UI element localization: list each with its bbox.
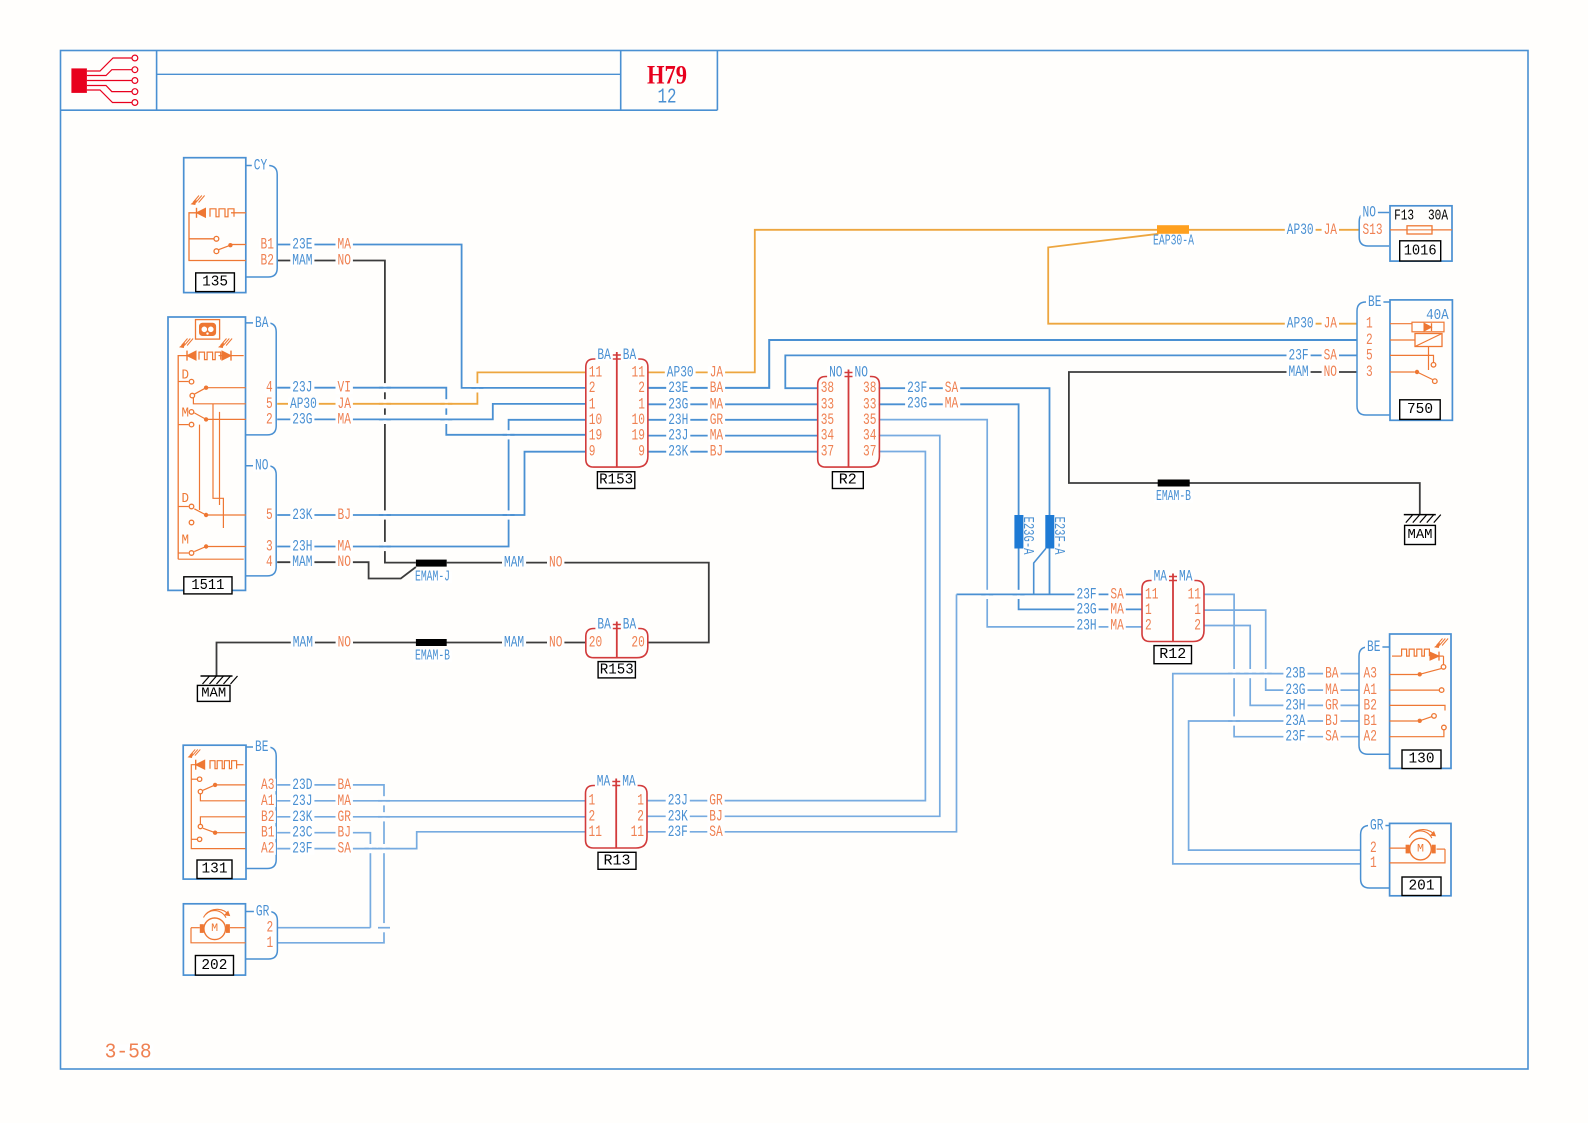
svg-text:EMAM-B: EMAM-B bbox=[1156, 489, 1191, 505]
svg-text:BE: BE bbox=[1368, 293, 1381, 311]
svg-text:MA: MA bbox=[338, 410, 352, 428]
svg-text:A2: A2 bbox=[261, 840, 274, 858]
svg-text:BJ: BJ bbox=[338, 506, 351, 524]
svg-text:F13: F13 bbox=[1394, 208, 1414, 224]
svg-text:20: 20 bbox=[589, 634, 602, 652]
svg-text:131: 131 bbox=[202, 861, 228, 878]
svg-text:EMAM-J: EMAM-J bbox=[415, 570, 450, 586]
svg-text:23B: 23B bbox=[1285, 665, 1305, 683]
svg-text:30A: 30A bbox=[1428, 208, 1448, 224]
svg-text:BE: BE bbox=[1367, 638, 1380, 656]
svg-text:12: 12 bbox=[658, 87, 677, 110]
svg-text:MA: MA bbox=[597, 773, 611, 791]
svg-text:MAM: MAM bbox=[293, 634, 313, 652]
svg-text:2: 2 bbox=[1145, 617, 1152, 635]
svg-text:NO: NO bbox=[1324, 363, 1337, 381]
svg-text:11: 11 bbox=[631, 823, 644, 841]
svg-text:BE: BE bbox=[255, 738, 268, 756]
svg-text:3: 3 bbox=[1366, 363, 1373, 381]
svg-text:23G: 23G bbox=[292, 410, 312, 428]
svg-text:SA: SA bbox=[709, 823, 723, 841]
svg-text:135: 135 bbox=[202, 274, 228, 291]
svg-text:23F: 23F bbox=[1289, 346, 1309, 364]
svg-text:E23G-A: E23G-A bbox=[1019, 517, 1035, 555]
svg-text:NO: NO bbox=[549, 634, 562, 652]
svg-text:BA: BA bbox=[623, 346, 637, 364]
svg-text:1016: 1016 bbox=[1404, 242, 1437, 259]
svg-text:D: D bbox=[182, 491, 190, 507]
svg-text:AP30: AP30 bbox=[1287, 315, 1314, 333]
svg-text:MA: MA bbox=[945, 395, 959, 413]
svg-text:R153: R153 bbox=[599, 472, 633, 489]
svg-text:H79: H79 bbox=[647, 61, 687, 90]
svg-text:SA: SA bbox=[1325, 728, 1339, 746]
svg-text:NO: NO bbox=[338, 634, 351, 652]
svg-text:NO: NO bbox=[338, 252, 351, 270]
svg-text:4: 4 bbox=[266, 553, 273, 571]
svg-text:R153: R153 bbox=[600, 661, 634, 678]
svg-text:MAM: MAM bbox=[201, 685, 226, 701]
svg-text:37: 37 bbox=[863, 443, 876, 461]
svg-text:R13: R13 bbox=[604, 852, 631, 869]
svg-text:23H: 23H bbox=[1077, 617, 1097, 635]
svg-text:NO: NO bbox=[338, 553, 351, 571]
svg-text:MAM: MAM bbox=[1408, 527, 1433, 543]
svg-text:AP30: AP30 bbox=[1287, 221, 1314, 239]
svg-text:M: M bbox=[182, 406, 190, 422]
svg-text:MAM: MAM bbox=[292, 553, 312, 571]
svg-text:37: 37 bbox=[821, 443, 834, 461]
svg-text:BA: BA bbox=[623, 616, 637, 634]
svg-text:20: 20 bbox=[631, 634, 644, 652]
svg-text:750: 750 bbox=[1407, 401, 1433, 418]
svg-text:40A: 40A bbox=[1426, 308, 1449, 324]
svg-text:NO: NO bbox=[255, 457, 268, 475]
svg-text:3-58: 3-58 bbox=[105, 1042, 152, 1065]
svg-text:JA: JA bbox=[1324, 221, 1338, 239]
svg-text:MAM: MAM bbox=[1289, 363, 1309, 381]
svg-text:5: 5 bbox=[1366, 346, 1373, 364]
svg-text:201: 201 bbox=[1409, 878, 1435, 895]
svg-text:BA: BA bbox=[597, 346, 611, 364]
svg-text:2: 2 bbox=[266, 410, 273, 428]
svg-text:23F: 23F bbox=[292, 840, 312, 858]
svg-text:B2: B2 bbox=[261, 252, 274, 270]
svg-text:BA: BA bbox=[710, 379, 724, 397]
svg-text:M: M bbox=[182, 532, 190, 548]
svg-text:MA: MA bbox=[1154, 568, 1168, 586]
svg-text:M: M bbox=[1417, 843, 1424, 855]
svg-text:1: 1 bbox=[1370, 854, 1377, 872]
svg-text:GR: GR bbox=[1370, 817, 1383, 835]
svg-text:23K: 23K bbox=[668, 443, 689, 461]
svg-text:1: 1 bbox=[267, 934, 274, 952]
svg-text:A2: A2 bbox=[1364, 728, 1377, 746]
svg-text:1: 1 bbox=[1366, 315, 1373, 333]
svg-text:NO: NO bbox=[1363, 204, 1376, 222]
svg-text:BJ: BJ bbox=[710, 443, 723, 461]
svg-text:EMAM-B: EMAM-B bbox=[415, 649, 450, 665]
svg-text:23F: 23F bbox=[1285, 728, 1305, 746]
svg-text:BA: BA bbox=[255, 314, 269, 332]
svg-text:SA: SA bbox=[338, 840, 352, 858]
svg-text:11: 11 bbox=[589, 823, 602, 841]
svg-text:MAM: MAM bbox=[292, 252, 312, 270]
svg-text:M: M bbox=[211, 923, 218, 935]
svg-text:SA: SA bbox=[1324, 346, 1338, 364]
svg-text:E23F-A: E23F-A bbox=[1050, 517, 1066, 555]
svg-text:BA: BA bbox=[597, 616, 611, 634]
svg-text:MA: MA bbox=[1179, 568, 1193, 586]
svg-text:9: 9 bbox=[589, 443, 596, 461]
svg-text:5: 5 bbox=[266, 506, 273, 524]
svg-text:130: 130 bbox=[1409, 751, 1435, 768]
svg-text:EAP30-A: EAP30-A bbox=[1153, 234, 1194, 250]
svg-text:MAM: MAM bbox=[504, 554, 524, 572]
svg-text:23K: 23K bbox=[292, 506, 313, 524]
svg-text:CY: CY bbox=[254, 157, 268, 175]
svg-text:9: 9 bbox=[638, 443, 645, 461]
svg-text:BA: BA bbox=[1325, 665, 1339, 683]
svg-text:R12: R12 bbox=[1159, 646, 1186, 663]
svg-text:23G: 23G bbox=[907, 395, 927, 413]
svg-text:A3: A3 bbox=[1364, 665, 1377, 683]
svg-text:23F: 23F bbox=[668, 823, 688, 841]
svg-text:23E: 23E bbox=[668, 379, 688, 397]
svg-text:MAM: MAM bbox=[504, 634, 524, 652]
svg-text:JA: JA bbox=[1324, 315, 1338, 333]
svg-text:202: 202 bbox=[201, 957, 227, 974]
svg-text:MA: MA bbox=[622, 773, 636, 791]
svg-text:2: 2 bbox=[1194, 617, 1201, 635]
svg-text:MA: MA bbox=[1110, 617, 1124, 635]
svg-text:1511: 1511 bbox=[191, 577, 224, 594]
svg-text:R2: R2 bbox=[839, 472, 857, 489]
svg-text:S13: S13 bbox=[1363, 221, 1383, 239]
svg-text:NO: NO bbox=[549, 554, 562, 572]
